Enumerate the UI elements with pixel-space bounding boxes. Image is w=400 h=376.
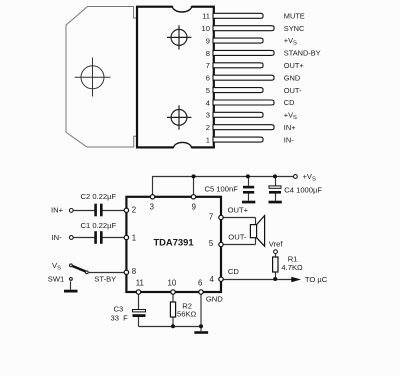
svg-text:SW1: SW1 (48, 274, 64, 283)
svg-text:6: 6 (198, 278, 202, 287)
svg-text:C3: C3 (114, 304, 124, 313)
svg-text:10: 10 (202, 24, 210, 33)
svg-text:6: 6 (206, 74, 210, 83)
svg-text:C2 0.22µF: C2 0.22µF (81, 192, 117, 201)
svg-text:1: 1 (206, 136, 210, 145)
svg-text:4: 4 (206, 98, 210, 107)
svg-text:OUT+: OUT+ (228, 206, 249, 215)
svg-text:2: 2 (206, 123, 210, 132)
svg-text:11: 11 (202, 12, 210, 21)
svg-text:OUT-: OUT- (284, 86, 302, 95)
svg-text:GND: GND (284, 73, 300, 82)
svg-text:9: 9 (192, 202, 196, 211)
svg-text:CD: CD (228, 267, 239, 276)
svg-text:IN+: IN+ (51, 205, 64, 214)
svg-text:8: 8 (132, 267, 136, 276)
svg-text:STAND-BY: STAND-BY (284, 49, 321, 58)
svg-text:1: 1 (132, 233, 136, 242)
svg-text:IN+: IN+ (284, 123, 296, 132)
svg-text:Vref: Vref (269, 240, 284, 249)
svg-text:7: 7 (209, 212, 213, 221)
svg-text:4.7KΩ: 4.7KΩ (281, 263, 303, 272)
svg-text:CD: CD (284, 98, 295, 107)
svg-text:ST-BY: ST-BY (94, 275, 116, 284)
svg-text:4: 4 (209, 275, 214, 284)
svg-text:8: 8 (206, 49, 210, 58)
svg-text:56KΩ: 56KΩ (177, 310, 197, 319)
svg-text:5: 5 (209, 239, 214, 248)
svg-text:C1 0.22µF: C1 0.22µF (81, 221, 117, 230)
svg-text:33 F: 33 F (111, 313, 129, 322)
svg-text:5: 5 (206, 86, 210, 95)
svg-text:10: 10 (168, 278, 177, 287)
svg-text:SYNC: SYNC (284, 24, 305, 33)
svg-text:GND: GND (206, 294, 223, 303)
svg-text:C5 100nF: C5 100nF (205, 185, 239, 194)
svg-text:3: 3 (150, 202, 154, 211)
svg-text:TO µC: TO µC (305, 275, 328, 284)
svg-text:OUT-: OUT- (228, 233, 247, 242)
svg-text:IN-: IN- (284, 135, 294, 144)
svg-text:OUT+: OUT+ (284, 61, 304, 70)
svg-text:3: 3 (206, 111, 210, 120)
svg-text:MUTE: MUTE (284, 11, 305, 20)
svg-text:9: 9 (206, 36, 210, 45)
svg-text:7: 7 (206, 61, 210, 70)
svg-text:TDA7391: TDA7391 (153, 237, 193, 248)
svg-text:C4 1000µF: C4 1000µF (284, 185, 322, 194)
svg-text:IN-: IN- (52, 233, 63, 242)
svg-text:11: 11 (136, 278, 144, 287)
svg-text:2: 2 (132, 206, 136, 215)
